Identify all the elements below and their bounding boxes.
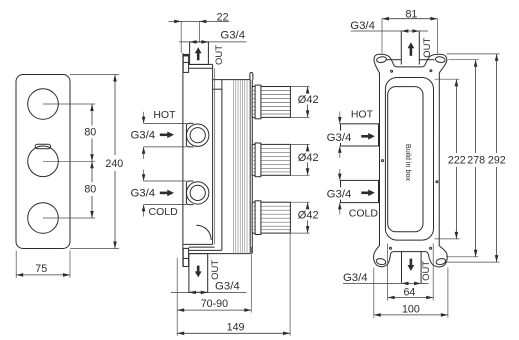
label G3/4 top (right view) [350,20,428,33]
bridge line behind top ports [387,59,402,61]
svg-text:OUT: OUT [214,45,225,65]
hot port box (right view) [341,124,379,146]
cold port box (right view) [341,180,379,202]
svg-text:292: 292 [488,155,506,167]
flow arrow hot (right) [361,133,375,140]
body cavity arc [196,225,211,240]
top port box (right view) [400,31,402,65]
svg-text:240: 240 [105,158,123,170]
body step lines right [213,68,251,250]
ear slot hole top-right [435,56,446,63]
cold bracket (right view) [338,169,342,215]
wall plate line [182,53,184,266]
knob circle 1 [28,89,59,120]
svg-text:222: 222 [448,155,466,167]
svg-text:278: 278 [467,155,485,167]
svg-text:G3/4: G3/4 [327,189,352,201]
center line knob 2 [43,160,95,162]
hot port bracket [186,123,193,146]
flow arrow cold (right) [361,190,375,197]
dimension Ø42 (middle) [291,144,319,175]
cartridge cylinder 2 [252,143,290,177]
ear slot hole top-left [376,56,387,63]
svg-text:22: 22 [217,12,229,24]
body bottom edges [183,244,250,253]
label G3/4 hot (right) [327,131,352,143]
dimension 100 [374,268,448,318]
label G3/4 top (mid view) [179,30,247,44]
svg-text:80: 80 [84,127,96,139]
top outlet flow arrow (up) [195,47,202,60]
knob 2 top cap [35,144,50,149]
cartridge hatching band [234,80,248,253]
dimension Ø42 (bottom) [291,202,319,233]
svg-text:70-90: 70-90 [201,298,228,310]
wall top pin [250,73,253,80]
hot bracket (right view) [338,112,342,159]
center line knob 3 [43,217,95,219]
bottom outlet box [189,254,208,293]
box lid inner line [388,87,423,232]
label G3/4 cold (right) [327,187,352,199]
svg-text:Build in box: Build in box [404,144,413,182]
valve body top edges [189,63,213,65]
svg-text:COLD: COLD [349,207,379,219]
top flow arrow (right view) [408,42,415,56]
svg-text:HOT: HOT [153,109,176,121]
top mounting tab [183,54,189,72]
ear slot hole bottom-right [436,258,447,266]
dimension 70-90 [177,247,251,336]
cold port circles [187,182,209,204]
box lid (thick) [385,78,433,241]
svg-text:Ø42: Ø42 [298,152,319,164]
bottom flow arrow (right view) [408,259,415,271]
svg-text:80: 80 [84,184,96,196]
flow arrow cold (mid) [160,190,174,197]
svg-text:OUT: OUT [210,260,221,280]
hot port circles [187,124,209,146]
dimension 80 (upper) [84,104,96,161]
dimension 292 [447,54,506,262]
dimension Ø42 (top) [291,87,319,118]
bottom mounting tab [183,248,188,266]
label G3/4 bottom (right view) [343,272,429,285]
svg-text:OUT: OUT [421,261,432,281]
svg-text:OUT: OUT [422,37,433,57]
valve body right edge [212,64,214,244]
svg-text:G3/4: G3/4 [130,188,155,200]
bottom port box (right view) [401,252,403,284]
dimension 81 [382,9,437,54]
flow arrow hot (mid) [160,132,174,139]
cartridge cylinder 1 [252,85,290,119]
knob circle 2 [28,146,59,177]
box body with mounting ears [374,54,448,267]
screw marks [382,70,438,250]
knob circle 3 [28,203,59,234]
dimension 75 [16,251,70,278]
svg-text:G3/4: G3/4 [220,30,245,42]
bottom outlet leader line [171,291,247,295]
dimension 64 [388,244,434,301]
svg-text:149: 149 [227,322,245,334]
svg-text:100: 100 [402,303,420,315]
band right wall [249,80,251,254]
dimension 22 [169,12,230,54]
ear slot hole bottom-left [376,258,387,266]
cartridge cylinder 3 [252,201,290,235]
svg-text:Ø42: Ø42 [298,210,319,222]
svg-text:G3/4: G3/4 [343,272,368,284]
dimension 278 [446,60,485,257]
svg-text:COLD: COLD [149,206,179,218]
cold port bracket [186,181,193,205]
dimension 80 (lower) [84,161,96,218]
trim plate outline [16,75,70,249]
hot/cold bracket lines (HOT) [142,112,187,159]
dimension 240 [70,75,123,249]
svg-text:HOT: HOT [351,109,374,121]
svg-text:G3/4: G3/4 [215,280,240,292]
hot/cold bracket lines (COLD) [142,170,187,217]
svg-text:75: 75 [35,263,47,275]
bottom outlet flow arrow (down) [195,266,202,278]
center line knob 1 [43,103,95,105]
svg-text:64: 64 [403,286,415,298]
dimension 149 [177,229,290,336]
svg-text:G3/4: G3/4 [327,132,352,144]
svg-text:G3/4: G3/4 [130,130,155,142]
dimension 222 [435,79,466,239]
svg-text:Ø42: Ø42 [298,94,319,106]
svg-text:G3/4: G3/4 [350,20,375,32]
top outlet box [190,42,209,65]
